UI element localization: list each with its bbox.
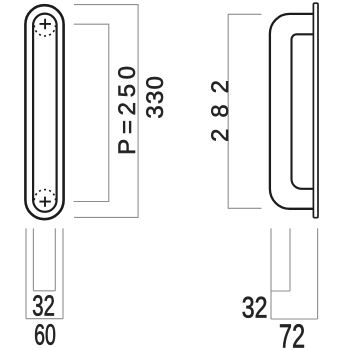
front view: inner recess outline (stadium) <box>33 14 57 212</box>
front view: outer plate outline (stadium) <box>25 5 63 219</box>
dimension 32 (side): dimension line <box>271 290 290 292</box>
side view: back plate (edge-on) <box>313 3 318 218</box>
side bottom: plate right extension line <box>317 228 319 319</box>
svg-text:32: 32 <box>32 291 55 322</box>
side bottom: grip inner extension line <box>289 228 291 291</box>
svg-text:60: 60 <box>34 320 56 350</box>
svg-text:32: 32 <box>242 291 268 325</box>
side bottom: grip outer extension line <box>270 228 272 319</box>
dimension 282: extension+dimension bracket <box>228 14 261 208</box>
svg-text:72: 72 <box>279 319 305 350</box>
dimension 72: dimension line <box>271 318 318 320</box>
front bottom: left inner extension line <box>32 228 34 290</box>
svg-text:282: 282 <box>207 69 234 142</box>
svg-text:330: 330 <box>142 75 169 119</box>
dimension 330: extension+dimension bracket <box>74 5 138 218</box>
bottom screw hole: cross mark <box>39 197 51 207</box>
front bottom: left outer extension line <box>25 228 27 318</box>
front bottom: right outer extension line <box>62 228 64 318</box>
svg-text:P=250: P=250 <box>114 61 141 155</box>
side view: grip outer profile <box>270 14 313 209</box>
front bottom: right inner extension line <box>54 228 56 290</box>
top screw hole: cross mark <box>40 19 52 29</box>
dimension P=250: extension+dimension bracket <box>74 24 109 201</box>
top screw hole: hidden (dashed) lower arc <box>34 25 55 36</box>
dimension 32 (front): dimension line <box>33 290 55 292</box>
bottom screw hole: hidden (dashed) upper arc <box>34 190 55 201</box>
side view: grip inner profile <box>292 34 314 189</box>
dimension 60: dimension line <box>26 318 63 320</box>
